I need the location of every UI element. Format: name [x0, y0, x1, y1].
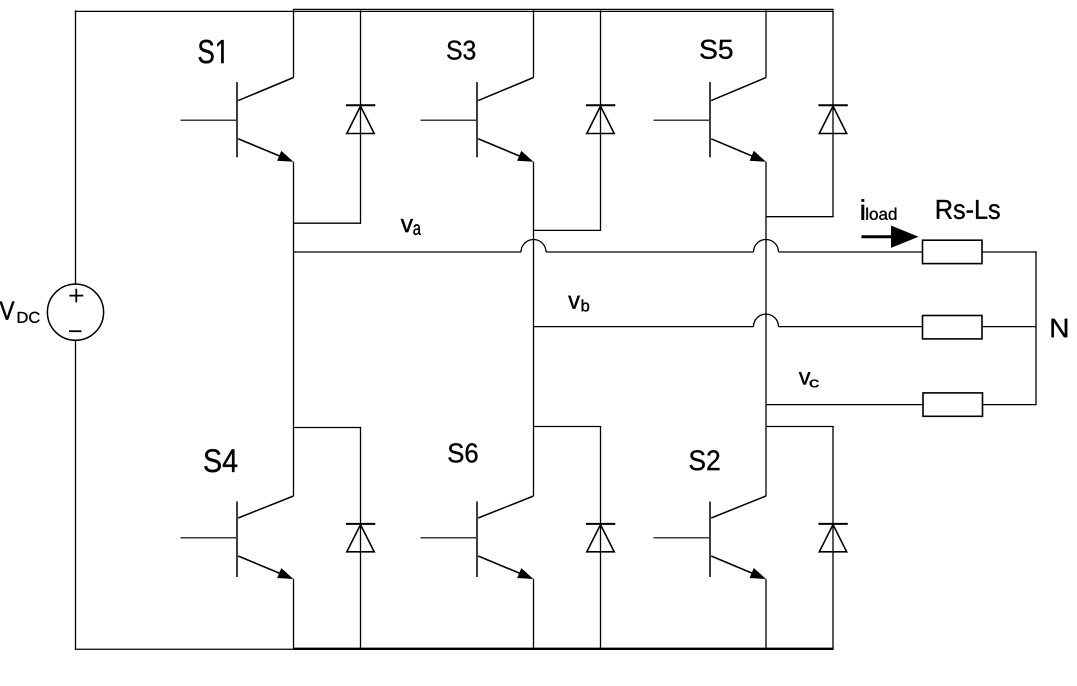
diode D5 anti-parallel with S5: [766, 10, 848, 217]
resistor Rs-Ls phase c: [923, 393, 983, 416]
wire bottom DC- rail: [75, 648, 834, 651]
label S2: [690, 450, 720, 470]
arrow i_load current direction: [862, 226, 919, 248]
label v_b: [568, 296, 589, 312]
diode D4 anti-parallel with S4: [294, 428, 376, 649]
transistor S1: [181, 10, 294, 252]
label S3: [447, 41, 475, 60]
label v_c: [799, 372, 819, 387]
label Rs-Ls: [937, 200, 1000, 219]
V_DC minus sign: [69, 330, 82, 332]
node v_c phase wire: [766, 404, 923, 406]
node v_a phase wire: [294, 240, 923, 253]
transistor S4: [181, 252, 294, 649]
wire resistor c to neutral: [983, 404, 1037, 406]
wire top DC+ rail (double stroke): [75, 9, 834, 11]
diode D2 anti-parallel with S2: [766, 427, 848, 649]
transistor S5: [654, 10, 767, 404]
resistor Rs-Ls phase a: [923, 240, 983, 263]
diode D6 anti-parallel with S6: [534, 427, 616, 649]
transistor S3: [421, 10, 534, 326]
wire neutral vertical bus: [1035, 251, 1037, 405]
label S4: [204, 449, 237, 472]
wire resistor b to neutral: [982, 326, 1036, 328]
label S5: [700, 40, 732, 59]
diode D1 anti-parallel with S1: [294, 10, 376, 223]
transistor S6: [421, 327, 534, 649]
resistor Rs-Ls phase b: [923, 316, 983, 339]
label S6: [448, 443, 477, 462]
node N label: [1052, 319, 1068, 337]
diode D3 anti-parallel with S3: [534, 10, 616, 230]
node v_b phase wire: [534, 314, 923, 327]
label i_load: [862, 199, 897, 220]
V_DC plus sign: [69, 289, 83, 303]
label S1: [199, 40, 224, 64]
label v_a: [401, 219, 421, 235]
wire left DC bus upper segment: [75, 10, 77, 284]
wire resistor a to neutral: [982, 251, 1036, 253]
transistor S2: [654, 405, 767, 649]
voltage source V_DC: [47, 284, 103, 340]
wire left DC bus lower segment: [75, 340, 77, 649]
label V_DC: [0, 302, 40, 323]
